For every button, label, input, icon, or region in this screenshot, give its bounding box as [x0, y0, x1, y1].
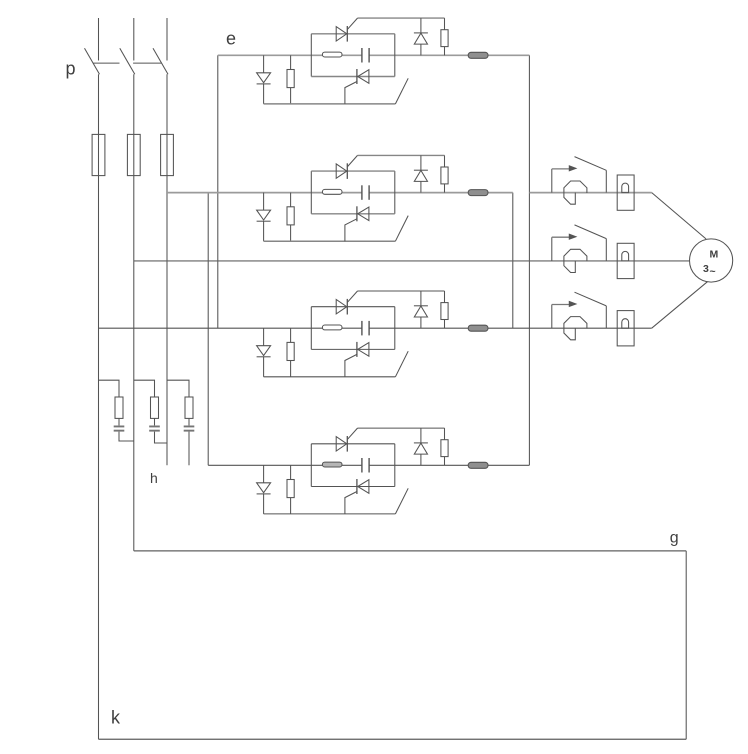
thyristor VT4a (module 4 top, pointing right) — [336, 436, 347, 452]
switch blade module 2 — [395, 216, 408, 242]
wire module 2 bottom rail — [264, 240, 396, 242]
thyristor VT4b (module 4 bottom, pointing left) — [357, 479, 369, 494]
resistor R2b (module 2 right) — [441, 155, 448, 192]
breaker pole Q3 blade — [153, 48, 168, 74]
gate wire of VT4b — [345, 492, 357, 514]
gate wire of VT3a — [348, 291, 358, 302]
wire module 1 loop to diode — [420, 18, 422, 33]
current transformer T3 — [564, 317, 587, 340]
svg-text:k: k — [111, 707, 121, 727]
wire k bus — [99, 738, 687, 740]
fuse F2 — [127, 134, 140, 175]
wire module 1 bottom rail — [264, 103, 396, 105]
wire module 3 line right part — [369, 327, 652, 329]
resistor R1s (snubber, horizontal) — [322, 52, 342, 57]
wire h branch 2 mid — [154, 418, 156, 425]
wire middle output line — [134, 260, 690, 262]
capacitor h3 — [184, 426, 195, 432]
capacitor C4s (snubber) — [362, 458, 369, 473]
wire module 1 gate loop top — [358, 17, 445, 19]
contactor K1 blade — [575, 157, 607, 171]
breaker pole Q1 blade — [85, 48, 100, 74]
resistor R3s (snubber, horizontal) — [322, 325, 342, 330]
fuse F1 — [92, 134, 105, 175]
capacitor C1s (snubber) — [362, 48, 369, 63]
wire h branch 2 top jog — [134, 380, 155, 397]
contactor K3 blade — [575, 292, 607, 306]
wire phase C vertical — [166, 74, 168, 465]
switch blade module 1 — [395, 78, 408, 104]
wire h branch 1 top jog — [99, 380, 120, 397]
motor label 3 — [703, 263, 709, 275]
wire right bus 1 — [528, 55, 530, 465]
svg-text:h: h — [150, 470, 158, 486]
wire module 2 line left part — [167, 192, 362, 194]
current transformer T1 — [564, 181, 587, 204]
gate wire of VT3b — [345, 354, 357, 376]
wire left bus 2 — [207, 193, 209, 466]
wire h branch 3 top jog — [167, 380, 189, 397]
diode VD1b (module 1 right, pointing up) — [414, 33, 428, 55]
wire module 1 line left part — [218, 54, 362, 56]
capacitor h2 — [149, 426, 160, 432]
wire module 1 line right part — [369, 54, 529, 56]
wire h branch 2 bottom — [155, 432, 168, 443]
bypass contactor K3 loop — [552, 305, 574, 329]
label p — [66, 59, 76, 79]
current sensor module 2 — [468, 190, 488, 196]
switch blade module 3 — [395, 351, 408, 377]
diode VD4a (module 4 left) — [257, 465, 271, 514]
current sensor module 3 — [468, 325, 488, 331]
capacitor h1 — [114, 426, 125, 432]
contactor K3 right leg — [605, 306, 607, 328]
wire module 4 gate loop top — [358, 427, 445, 429]
breaker linkage bar — [133, 62, 162, 64]
contactor K3 arrowhead — [569, 302, 576, 307]
svg-text:3: 3 — [703, 263, 709, 275]
wire right riser of k/g loop — [685, 551, 687, 739]
gate wire of VT4a — [348, 428, 358, 439]
thyristor VT3b (module 3 bottom, pointing left) — [357, 342, 369, 357]
resistor R4s (snubber, horizontal) — [322, 462, 342, 467]
fuse F3 — [161, 134, 174, 175]
wire phase A vertical — [98, 74, 100, 739]
label h — [150, 470, 158, 486]
wire top output line — [529, 192, 651, 194]
wire h branch 1 mid — [118, 418, 120, 425]
thyristor VT2b (module 2 bottom, pointing left) — [357, 206, 369, 221]
wire module 3 bottom rail — [264, 376, 396, 378]
wire to motor bottom — [652, 281, 708, 328]
overload relay F1 — [617, 175, 634, 210]
label k — [111, 707, 121, 727]
wire h branch 3 mid — [188, 418, 190, 425]
wire left bus 1 — [217, 55, 219, 328]
resistor R3b (module 3 right) — [441, 291, 448, 328]
gate wire of VT1b — [345, 82, 357, 104]
thyristor VT2a (module 2 top, pointing right) — [336, 163, 347, 179]
svg-text:e: e — [226, 29, 236, 49]
label g — [670, 529, 679, 546]
contactor K1 right leg — [605, 170, 607, 192]
svg-text:~: ~ — [710, 266, 716, 278]
wire module 2 line right part — [369, 192, 513, 194]
snubber box module 3 — [311, 307, 395, 350]
motor label M — [710, 249, 719, 261]
thyristor VT1b (module 1 bottom, pointing left) — [357, 69, 369, 84]
resistor h3 — [185, 397, 193, 418]
wire phase A top — [98, 18, 100, 61]
wire phase B vertical — [133, 74, 135, 551]
wire module 3 gate loop top — [358, 290, 445, 292]
gate wire of VT1a — [348, 18, 358, 29]
wire right bus 2 — [512, 193, 514, 329]
resistor R4a (module 4 left) — [287, 465, 294, 514]
label e — [226, 29, 236, 49]
contactor K2 blade — [575, 225, 607, 239]
resistor R3a (module 3 left) — [287, 328, 294, 377]
wire module 4 line right part — [369, 464, 529, 466]
resistor R2s (snubber, horizontal) — [322, 189, 342, 194]
resistor R4b (module 4 right) — [441, 428, 448, 465]
gate wire of VT2b — [345, 219, 357, 241]
resistor R2a (module 2 left) — [287, 193, 294, 242]
current sensor module 4 — [468, 462, 488, 468]
overload relay F3 — [617, 311, 634, 346]
wire phase B top — [133, 18, 135, 61]
diode VD3a (module 3 left) — [257, 328, 271, 377]
contactor K2 arrowhead — [569, 234, 576, 239]
wire module 3 loop to diode — [420, 291, 422, 306]
motor M circle — [690, 239, 733, 282]
svg-text:p: p — [66, 59, 76, 79]
switch blade module 4 — [395, 488, 408, 514]
snubber box module 4 — [311, 444, 395, 487]
contactor K1 arrowhead — [569, 166, 576, 171]
current sensor module 1 — [468, 52, 488, 58]
resistor h1 — [115, 397, 123, 418]
wire to motor top — [652, 193, 706, 239]
wire h branch 1 bottom — [119, 432, 134, 441]
diode VD2a (module 2 left) — [257, 193, 271, 242]
wire phase C top — [166, 18, 168, 61]
diode VD3b (module 3 right, pointing up) — [414, 306, 428, 328]
wire module 4 line left part — [208, 464, 362, 466]
resistor R1a (module 1 left) — [287, 55, 294, 104]
overload relay F2 — [617, 243, 634, 278]
motor label tilde — [710, 266, 716, 278]
wire g bus — [134, 550, 686, 552]
diode VD4b (module 4 right, pointing up) — [414, 443, 428, 465]
wire h branch 3 bottom — [188, 432, 190, 466]
resistor h2 — [151, 397, 159, 418]
breaker linkage bar — [93, 62, 119, 64]
svg-text:M: M — [710, 249, 719, 261]
thyristor VT3a (module 3 top, pointing right) — [336, 299, 347, 315]
resistor R1b (module 1 right) — [441, 18, 448, 55]
bypass contactor K2 loop — [552, 237, 574, 261]
bypass contactor K1 loop — [552, 169, 574, 193]
contactor K2 right leg — [605, 239, 607, 261]
gate wire of VT2a — [348, 155, 358, 166]
wire module 2 loop to diode — [420, 155, 422, 170]
wire module 2 gate loop top — [358, 154, 445, 156]
thyristor VT1a (module 1 top, pointing right) — [336, 26, 347, 42]
capacitor C3s (snubber) — [362, 321, 369, 336]
svg-text:g: g — [670, 529, 679, 546]
current transformer T2 — [564, 249, 587, 272]
breaker pole Q2 blade — [120, 48, 135, 74]
diode VD2b (module 2 right, pointing up) — [414, 170, 428, 192]
capacitor C2s (snubber) — [362, 185, 369, 200]
diode VD1a (module 1 left) — [257, 55, 271, 104]
wire module 3 line left part — [99, 327, 362, 329]
snubber box module 1 — [311, 34, 395, 77]
wire module 4 bottom rail — [264, 513, 396, 515]
snubber box module 2 — [311, 171, 395, 214]
wire module 4 loop to diode — [420, 428, 422, 443]
